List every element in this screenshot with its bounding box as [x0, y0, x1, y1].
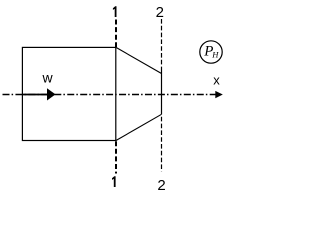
svg-text:x: x: [213, 73, 220, 88]
velocity w arrow shaft: [23, 94, 49, 96]
label 1 bottom: [112, 176, 116, 187]
svg-text:2: 2: [157, 177, 165, 194]
duct rectangle: [22, 47, 115, 140]
svg-text:2: 2: [156, 4, 164, 21]
svg-text:w: w: [41, 70, 53, 86]
centerline axis dash-dot: [3, 94, 216, 96]
section line 2 dashed upper: [161, 19, 163, 71]
svg-text:H: H: [211, 49, 219, 59]
section line 2 dashed lower: [161, 117, 163, 172]
x axis arrowhead: [215, 91, 223, 98]
ambient pressure symbol circle: [200, 41, 222, 63]
label 1 top: [113, 6, 117, 17]
velocity w arrowhead: [47, 88, 56, 100]
nozzle lower wall slant: [116, 114, 162, 140]
nozzle exit edge solid on line 2: [161, 71, 163, 114]
nozzle upper wall slant: [116, 47, 162, 73]
section line 1 dashed upper: [115, 20, 117, 48]
section line 1 dashed lower: [115, 141, 117, 173]
